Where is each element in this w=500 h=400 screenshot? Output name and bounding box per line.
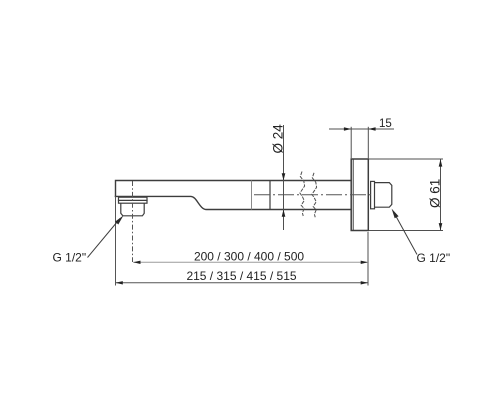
tube feature line (light)	[251, 181, 253, 210]
svg-text:G 1/2": G 1/2"	[417, 251, 451, 265]
bottom extension line left	[115, 196, 117, 285]
dim D61 arrows	[439, 159, 443, 166]
vertical outlet centerline	[132, 181, 134, 262]
break squiggle right	[312, 173, 317, 218]
dim 15 line	[329, 128, 394, 130]
shower arm tube outline	[116, 181, 352, 210]
tube feature line (dark)	[269, 181, 271, 210]
outlet nut	[121, 203, 144, 216]
leader right G1/2	[395, 215, 417, 255]
svg-text:15: 15	[379, 118, 392, 130]
dim 200-500 line	[133, 261, 368, 263]
dim 15 arrows	[344, 127, 351, 130]
horizontal centerline	[254, 194, 373, 196]
svg-text:Ø 61: Ø 61	[428, 179, 443, 208]
threaded stub G1/2	[375, 183, 392, 208]
stub collar ring	[371, 181, 375, 208]
leader left G1/2	[88, 219, 121, 258]
bottom extension line right	[367, 232, 369, 286]
svg-text:200 / 300 / 400 / 500: 200 / 300 / 400 / 500	[194, 249, 304, 263]
dim 200-500 arrows	[133, 261, 140, 264]
svg-text:Ø 24: Ø 24	[271, 124, 286, 154]
svg-text:G 1/2": G 1/2"	[53, 251, 87, 265]
dim D61 line	[440, 159, 442, 231]
dim 215-515 line	[116, 282, 369, 284]
dim 15 extension lines	[351, 127, 368, 158]
dim 215-515 arrows	[116, 281, 123, 284]
wall flange plate	[351, 159, 368, 231]
dim D24 line	[283, 125, 285, 230]
outlet plate	[119, 197, 148, 203]
break squiggle left	[300, 172, 305, 217]
dim D61 extension lines	[369, 159, 443, 231]
dim D24 arrows	[282, 173, 286, 180]
svg-text:215 / 315 / 415 / 515: 215 / 315 / 415 / 515	[186, 269, 296, 283]
